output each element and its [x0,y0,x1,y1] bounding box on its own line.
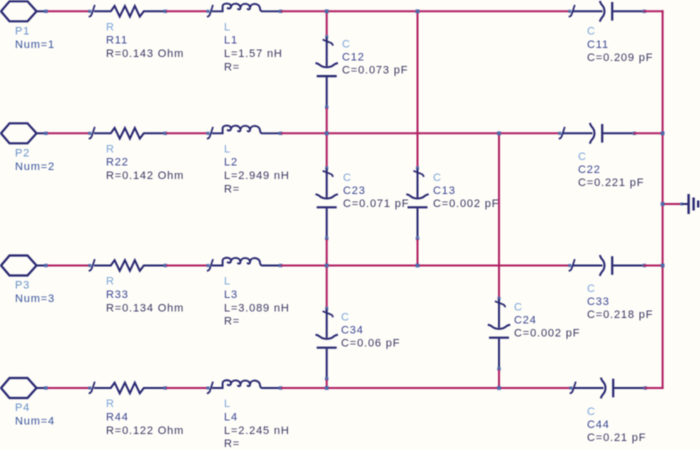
wire port P2 to R22 [48,132,90,134]
wire bus to ground [663,203,681,205]
wire C23 to row 3 [326,239,328,265]
wire C34 to row 4 [326,380,328,388]
svg-text:L=3.089 nH: L=3.089 nH [224,302,290,314]
wire port P4 to R44 [48,387,90,389]
pin 2 square of C23 [325,237,328,240]
svg-text:C13: C13 [433,185,456,197]
svg-text:C: C [342,39,351,51]
svg-text:L: L [224,398,231,410]
capacitor C33 (C=0.218 pF), series [568,264,571,267]
resistor R11 (R=0.143 Ohm), row 1 [88,10,91,13]
svg-text:C11: C11 [587,39,609,51]
svg-text:R22: R22 [106,157,129,169]
wire L1 to C11 (net row 1) [281,10,571,12]
svg-text:C34: C34 [341,325,364,337]
wire output bus (vertical) [662,10,664,389]
pin square of P3 [44,264,47,267]
pin 2 square of R33 [164,264,167,267]
svg-text:L3: L3 [224,289,238,301]
wire C33 to output bus [644,265,663,267]
svg-text:C=0.209 pF: C=0.209 pF [587,52,653,64]
capacitor C24 (C=0.002 pF), shunt [498,297,501,300]
node bus/ground [661,202,665,206]
wire C11 to output bus [644,10,664,12]
wire C12 to row 2 [326,108,328,133]
svg-text:C: C [514,302,523,314]
resistor R33 (R=0.134 Ohm), row 3 [88,264,91,267]
svg-text:C33: C33 [587,296,610,308]
wire port P3 to R33 [48,265,90,267]
svg-text:R: R [106,276,115,288]
capacitor C13 (C=0.002 pF), shunt [416,167,419,170]
svg-text:C=0.071 pF: C=0.071 pF [343,198,409,210]
node row2/colA [325,131,329,135]
inductor L4 (L=2.245 nH), row 4 [207,387,210,390]
pin 2 square of L4 [279,386,282,389]
svg-text:L1: L1 [224,35,238,47]
svg-text:C24: C24 [514,315,537,327]
svg-text:Num=1: Num=1 [15,39,55,51]
svg-text:C22: C22 [578,164,601,176]
node row3/colA [325,264,329,268]
pin 2 square of R22 [164,132,167,135]
svg-text:Num=2: Num=2 [15,161,55,173]
wire C44 to output bus [645,387,664,389]
pin square of P2 [44,132,47,135]
pin 2 square of L1 [279,10,282,13]
wire L2 to C22 (net row 2) [281,132,561,134]
svg-text:R44: R44 [106,411,129,423]
svg-text:L=1.57 nH: L=1.57 nH [224,48,283,60]
inductor L1 (L=1.57 nH), row 1 [207,10,210,13]
svg-text:Num=4: Num=4 [15,416,55,428]
port P2 (Term), Num=2 [1,123,37,143]
svg-text:C=0.002 pF: C=0.002 pF [514,328,580,340]
wire L3 to C33 (net row 3) [281,265,571,267]
svg-text:C: C [433,172,442,184]
svg-text:C: C [578,151,587,163]
pin 2 square of C22 [633,132,636,135]
resistor R22 (R=0.142 Ohm), row 2 [88,132,91,135]
node row1/colA [325,9,329,13]
inductor L3 (L=3.089 nH), row 3 [207,264,210,267]
svg-text:C12: C12 [342,52,365,64]
svg-text:P2: P2 [15,148,30,160]
resistor R44 (R=0.122 Ohm), row 4 [88,387,91,390]
pin square of P1 [44,10,47,13]
svg-text:C=0.21 pF: C=0.21 pF [587,432,646,444]
svg-text:R33: R33 [106,289,129,301]
pin 2 square of L3 [279,264,282,267]
svg-text:Num=3: Num=3 [15,293,55,305]
svg-text:R: R [106,21,115,33]
wire C24 to row 4 [498,370,500,388]
svg-text:R=0.142 Ohm: R=0.142 Ohm [106,170,184,182]
capacitor C22 (C=0.221 pF), series [558,132,561,135]
svg-text:L2: L2 [224,157,238,169]
wire row1 to C12 [326,11,328,39]
node row3/colB [416,264,420,268]
port P1 (Term), Num=1 [1,1,37,21]
pin 2 square of R11 [164,10,167,13]
capacitor C34 (C=0.06 pF), shunt [325,307,328,310]
pin 2 square of C33 [643,264,646,267]
ground symbol [682,203,688,205]
svg-text:L=2.245 nH: L=2.245 nH [224,425,290,437]
wire row3 to C34 [326,266,328,312]
svg-text:R=0.134 Ohm: R=0.134 Ohm [106,302,184,314]
wire L4 to C44 (net row 4) [281,387,573,389]
svg-text:P1: P1 [15,26,30,38]
wire C13 to row 3 [417,239,419,265]
svg-text:C=0.002 pF: C=0.002 pF [433,198,499,210]
pin 2 square of R44 [164,386,167,389]
inductor L2 (L=2.949 nH), row 2 [207,132,210,135]
wire R33 to L3 [166,265,208,267]
port P4 (Term), Num=4 [1,378,37,398]
pin 2 square of C13 [416,237,419,240]
svg-text:R=: R= [224,62,240,74]
pin 2 square of C11 [643,10,646,13]
svg-text:C44: C44 [587,419,610,431]
node row1/colB [416,9,420,13]
capacitor C11 (C=0.209 pF), series [568,10,571,13]
port P3 (Term), Num=3 [1,256,37,276]
svg-text:R=: R= [224,438,240,450]
svg-text:P3: P3 [15,280,30,292]
pin 2 square of C24 [497,367,500,370]
pin 2 square of C12 [325,106,328,109]
svg-text:C23: C23 [343,185,366,197]
svg-text:C: C [587,26,596,38]
svg-text:P4: P4 [15,402,30,414]
capacitor C44 (C=0.21 pF), series [569,387,572,390]
capacitor C12 (C=0.073 pF), shunt [325,35,328,38]
node bus/row3 [661,264,665,268]
svg-text:C: C [341,312,350,324]
capacitor C23 (C=0.071 pF), shunt [325,167,328,170]
pin 2 square of C44 [644,386,647,389]
svg-text:L=2.949 nH: L=2.949 nH [224,170,290,182]
node row4/colA [325,386,329,390]
svg-text:R: R [106,143,115,155]
svg-text:R=0.122 Ohm: R=0.122 Ohm [106,425,184,437]
svg-text:R=0.143 Ohm: R=0.143 Ohm [106,48,184,60]
svg-text:R=: R= [224,184,240,196]
svg-text:C: C [587,406,596,418]
node row2/colC [497,131,501,135]
svg-text:C=0.218 pF: C=0.218 pF [587,309,653,321]
wire C22 to output bus [634,132,663,134]
svg-text:L: L [224,276,231,288]
pin 2 square of C34 [325,377,328,380]
svg-text:R: R [106,398,115,410]
svg-text:R=: R= [224,316,240,328]
wire R44 to L4 [166,387,208,389]
pin square of ground [680,203,683,206]
svg-text:R11: R11 [106,35,128,47]
svg-text:C=0.073 pF: C=0.073 pF [342,65,408,77]
svg-text:L: L [224,21,231,33]
wire port P1 to R11 [48,10,90,12]
pin 2 square of L2 [279,132,282,135]
node bus/row2 [661,131,665,135]
node row4/colC [497,386,501,390]
svg-text:L4: L4 [224,411,238,423]
svg-text:C: C [343,172,352,184]
wire R22 to L2 [166,132,208,134]
wire row1 through row2 to C13 [417,11,419,170]
wire row2 through row3 to C24 [498,133,500,301]
svg-text:C=0.06 pF: C=0.06 pF [341,338,400,350]
wire row2 to C23 [326,133,328,170]
svg-text:L: L [224,143,231,155]
wire R11 to L1 [166,10,208,12]
svg-text:C=0.221 pF: C=0.221 pF [578,177,644,189]
pin square of P4 [44,386,47,389]
svg-text:C: C [587,283,596,295]
